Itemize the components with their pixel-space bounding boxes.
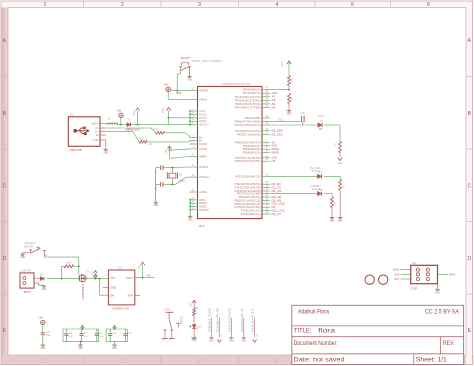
svg-text:UGND: UGND — [199, 142, 207, 146]
svg-text:GND: GND — [287, 113, 292, 116]
svg-text:MISO: MISO — [272, 152, 280, 155]
svg-text:XTAL1: XTAL1 — [199, 165, 209, 169]
svg-text:VCC: VCC — [199, 109, 205, 113]
svg-text:1K: 1K — [334, 202, 337, 205]
svg-text:1: 1 — [44, 2, 47, 8]
svg-text:D6_A7: D6_A7 — [272, 213, 282, 216]
svg-text:VCC: VCC — [162, 108, 165, 113]
svg-text:GND: GND — [188, 218, 193, 221]
svg-text:1: 1 — [44, 359, 47, 365]
svg-text:PF7(ADC7/TDI): PF7(ADC7/TDI) — [235, 105, 261, 109]
svg-text:D4_A4: D4_A4 — [272, 190, 282, 193]
svg-text:D: D — [467, 256, 471, 262]
svg-text:ATMEGA32U4-AU: ATMEGA32U4-AU — [221, 82, 251, 86]
svg-text:GND: GND — [187, 78, 192, 81]
svg-text:X1: X1 — [70, 113, 74, 117]
svg-text:C: C — [467, 184, 471, 190]
svg-text:2: 2 — [121, 359, 124, 365]
svg-text:+5V: +5V — [39, 316, 44, 320]
svg-text:GND: GND — [154, 204, 159, 207]
svg-text:PB1(SCLK): PB1(SCLK) — [243, 144, 261, 148]
svg-text:D1: D1 — [127, 117, 131, 121]
svg-text:1K: 1K — [343, 185, 346, 188]
svg-text:RST: RST — [176, 91, 182, 95]
svg-text:1uF: 1uF — [99, 336, 103, 338]
svg-text:RESET: RESET — [199, 89, 209, 93]
svg-text:ID: ID — [96, 133, 99, 137]
svg-text:PB7(OC1C/RTS): PB7(OC1C/RTS) — [235, 156, 261, 160]
svg-text:+5V: +5V — [117, 108, 122, 112]
svg-text:G: G — [163, 339, 165, 341]
svg-text:GND: GND — [112, 347, 117, 350]
svg-text:VBATSW: VBATSW — [208, 307, 211, 332]
svg-text:1uF: 1uF — [69, 336, 73, 338]
svg-text:PD2(RXD1/INT2): PD2(RXD1/INT2) — [235, 182, 261, 186]
svg-text:+3V: +3V — [256, 334, 258, 338]
svg-text:C13: C13 — [300, 112, 305, 115]
svg-text:GND: GND — [209, 341, 214, 343]
svg-text:D-: D- — [96, 126, 99, 130]
svg-text:PD7(T0/OC4D): PD7(T0/OC4D) — [237, 192, 261, 196]
svg-text:SPST_TACT-SMD2: SPST_TACT-SMD2 — [192, 59, 223, 63]
svg-text:GND: GND — [241, 341, 246, 343]
svg-text:BYP: BYP — [128, 294, 133, 298]
svg-text:+5V: +5V — [164, 82, 169, 86]
svg-text:VBUS: VBUS — [199, 97, 207, 101]
svg-text:3: 3 — [198, 2, 201, 8]
svg-text:MINI-USB: MINI-USB — [70, 148, 82, 152]
svg-text:GND: GND — [164, 309, 170, 312]
svg-text:100K: 100K — [66, 261, 72, 264]
svg-text:PE2(HWB): PE2(HWB) — [245, 116, 261, 120]
svg-text:10uF: 10uF — [92, 269, 94, 275]
svg-text:PF4(ADC4/TCK): PF4(ADC4/TCK) — [235, 95, 261, 99]
svg-text:SCK: SCK — [394, 273, 399, 276]
svg-text:AREF: AREF — [199, 155, 207, 159]
svg-text:REV:: REV: — [443, 340, 455, 347]
svg-text:BATT: BATT — [24, 290, 31, 294]
svg-text:5: 5 — [351, 2, 354, 8]
svg-text:VIN: VIN — [110, 276, 114, 280]
svg-text:10K: 10K — [291, 78, 294, 83]
svg-text:D+: D+ — [95, 130, 99, 134]
svg-text:MISO: MISO — [393, 269, 399, 272]
svg-text:D2_SDA: D2_SDA — [272, 130, 284, 133]
svg-text:D12/A11: D12/A11 — [252, 306, 255, 332]
svg-text:1K: 1K — [335, 143, 338, 146]
svg-text:GND: GND — [338, 220, 343, 223]
svg-text:AVCC: AVCC — [199, 119, 207, 123]
svg-text:TITLE:: TITLE: — [294, 327, 311, 334]
svg-text:VOUT: VOUT — [126, 276, 134, 280]
svg-text:JP1: JP1 — [412, 261, 417, 265]
svg-text:2: 2 — [121, 2, 124, 8]
svg-text:4: 4 — [276, 359, 279, 365]
svg-text:D6/A7: D6/A7 — [241, 306, 244, 332]
svg-text:AGND2: AGND2 — [199, 208, 209, 212]
svg-text:D: D — [2, 256, 6, 262]
svg-text:PD6(T1/ADC9): PD6(T1/ADC9) — [237, 132, 261, 136]
svg-text:GND: GND — [41, 347, 46, 350]
svg-text:EN: EN — [110, 294, 114, 298]
svg-text:UCAP: UCAP — [199, 147, 207, 151]
svg-text:Date: not saved: Date: not saved — [294, 357, 345, 364]
svg-text:1uF: 1uF — [46, 334, 51, 337]
svg-text:C: C — [2, 184, 6, 190]
svg-text:PD0(SCL/INT0): PD0(SCL/INT0) — [235, 159, 261, 163]
svg-text:A10: A10 — [272, 92, 279, 95]
svg-text:BOOT: BOOT — [181, 56, 190, 60]
svg-text:GND: GND — [330, 220, 335, 223]
svg-text:GND: GND — [20, 256, 25, 259]
svg-text:MOSI: MOSI — [449, 273, 456, 276]
svg-text:D10/A10: D10/A10 — [228, 307, 231, 332]
svg-text:2-JST-PH: 2-JST-PH — [20, 270, 31, 273]
svg-text:GND: GND — [42, 288, 47, 291]
svg-text:SD/T2B: SD/T2B — [24, 244, 33, 248]
svg-text:PC7(ICP3/CLK0): PC7(ICP3/CLK0) — [235, 123, 261, 127]
svg-text:PC6(OC3A/OC4A): PC6(OC3A/OC4A) — [235, 205, 261, 209]
svg-text:D10: D10 — [278, 118, 283, 121]
svg-text:PF1(ADC1): PF1(ADC1) — [243, 91, 261, 95]
svg-text:GND: GND — [93, 138, 99, 142]
svg-text:Adafruit Flora: Adafruit Flora — [298, 309, 329, 316]
svg-text:+5V: +5V — [165, 149, 168, 154]
svg-text:GND: GND — [104, 151, 109, 154]
svg-text:GND: GND — [435, 291, 440, 294]
svg-text:ONOFF: ONOFF — [182, 315, 184, 324]
svg-text:D9/A9: D9/A9 — [216, 306, 219, 332]
svg-text:RED: RED — [319, 115, 324, 118]
svg-text:GND: GND — [110, 286, 116, 290]
svg-text:Sheet: 1/1: Sheet: 1/1 — [416, 357, 447, 364]
svg-text:PF5(ADC5/TMS): PF5(ADC5/TMS) — [235, 98, 261, 102]
svg-text:PB2(MOSI): PB2(MOSI) — [243, 147, 261, 151]
svg-text:PB3(MISO): PB3(MISO) — [243, 151, 261, 155]
svg-text:AVCC1: AVCC1 — [199, 123, 209, 127]
svg-text:XTAL2: XTAL2 — [199, 175, 209, 179]
svg-text:L1: L1 — [108, 117, 111, 121]
svg-text:GND: GND — [78, 347, 83, 350]
svg-text:PB4(PCINT4): PB4(PCINT4) — [239, 195, 261, 199]
svg-text:PD3(TXD1/INT3): PD3(TXD1/INT3) — [235, 186, 261, 190]
svg-text:PB0(SS/PCINT0): PB0(SS/PCINT0) — [235, 140, 261, 144]
svg-text:4: 4 — [276, 2, 279, 8]
svg-text:PD5(ADC11): PD5(ADC11) — [241, 212, 261, 216]
svg-text:VCC2: VCC2 — [199, 112, 207, 116]
svg-text:GND: GND — [337, 163, 342, 165]
svg-text:D3_SCL: D3_SCL — [272, 133, 284, 136]
svg-text:LP2985-3.3V: LP2985-3.3V — [112, 307, 129, 311]
svg-text:PD1(SDA/INT1): PD1(SDA/INT1) — [235, 174, 261, 178]
svg-text:RST: RST — [395, 278, 400, 281]
svg-text:GND2: GND2 — [199, 204, 207, 208]
svg-text:PF6(ADC6/TDO): PF6(ADC6/TDO) — [235, 102, 261, 106]
svg-text:6: 6 — [427, 2, 430, 8]
svg-text:PF0(ADC0): PF0(ADC0) — [243, 88, 261, 92]
svg-text:+3V: +3V — [221, 334, 223, 338]
svg-text:CC 2.5 BY-SA: CC 2.5 BY-SA — [425, 309, 460, 316]
svg-text:22R: 22R — [148, 143, 153, 146]
svg-text:3: 3 — [198, 359, 201, 365]
svg-text:PB6(OC1B/ADC13): PB6(OC1B/ADC13) — [235, 202, 261, 206]
svg-text:flora: flora — [318, 327, 335, 334]
svg-text:1uF: 1uF — [84, 336, 88, 338]
svg-text:CORE: CORE — [199, 190, 207, 194]
svg-text:+3V: +3V — [190, 303, 193, 308]
svg-text:IC2: IC2 — [118, 265, 123, 269]
svg-text:GND: GND — [192, 341, 197, 343]
svg-text:FDN340P: FDN340P — [81, 285, 84, 300]
svg-text:VCC: VCC — [281, 61, 284, 66]
svg-text:+3V: +3V — [146, 274, 151, 278]
svg-text:R22: R22 — [139, 137, 144, 140]
svg-text:PD6(ADC10): PD6(ADC10) — [241, 209, 261, 213]
svg-text:IC1: IC1 — [199, 224, 205, 228]
svg-text:UVCC: UVCC — [199, 116, 207, 120]
svg-text:PD5(XCK1/CTS): PD5(XCK1/CTS) — [235, 129, 261, 133]
svg-text:VBUS: VBUS — [91, 121, 99, 125]
svg-text:PE6(INT6/AIN0): PE6(INT6/AIN0) — [235, 119, 261, 123]
svg-text:10K: 10K — [291, 96, 294, 101]
svg-text:VCC: VCC — [133, 110, 136, 115]
svg-text:1K: 1K — [196, 306, 199, 309]
svg-text:ICSP: ICSP — [411, 286, 418, 290]
svg-text:PB5(OC1A/ADC12): PB5(OC1A/ADC12) — [235, 198, 261, 202]
svg-text:Document Number:: Document Number: — [294, 340, 338, 347]
svg-text:GND: GND — [229, 341, 234, 343]
svg-text:R21: R21 — [154, 128, 159, 131]
svg-text:+3V: +3V — [138, 265, 141, 270]
svg-text:D+: D+ — [199, 139, 203, 143]
